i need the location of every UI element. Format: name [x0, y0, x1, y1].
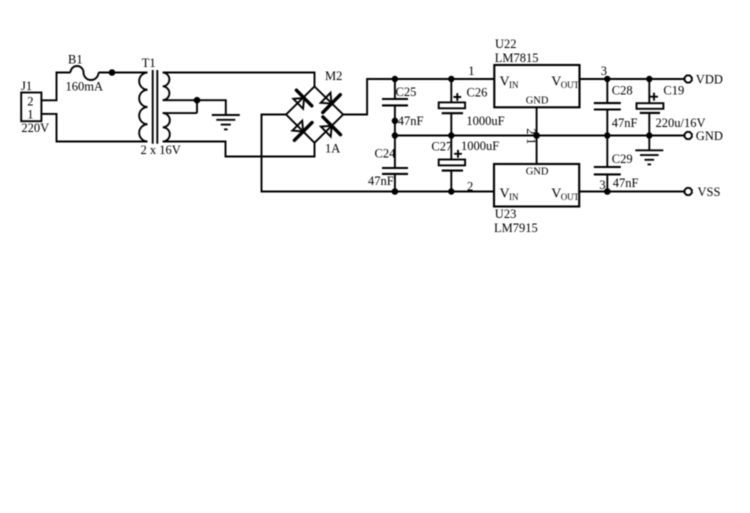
- diode D-lower-right: [321, 117, 341, 137]
- wire U22 gnd pin: [536, 107, 538, 135]
- capacitor C26 (polarized): [439, 79, 505, 136]
- bridge rectifier M2: [286, 69, 343, 155]
- svg-text:GND: GND: [526, 96, 549, 107]
- wire VDD rail: [580, 78, 684, 80]
- connector J1: [21, 79, 49, 135]
- junction C29 bottom: [604, 188, 611, 195]
- wire U23 gnd pin: [536, 136, 538, 165]
- gnd bus wire: [395, 135, 684, 137]
- terminal GND: [685, 129, 723, 143]
- wire center tap: [163, 100, 226, 115]
- svg-text:LM7915: LM7915: [494, 221, 538, 235]
- ground (output common): [635, 136, 663, 165]
- terminal VDD: [685, 73, 723, 87]
- transformer T1: [139, 56, 181, 157]
- wire fuse to transformer primary top: [99, 72, 148, 74]
- regulator U22 LM7815: [494, 37, 579, 107]
- wire bridge right corner to positive rail: [343, 79, 494, 115]
- junction after fuse: [109, 69, 116, 76]
- junction C19 top: [646, 76, 652, 82]
- junction center tap: [194, 97, 201, 104]
- svg-text:GND: GND: [696, 129, 723, 143]
- svg-text:1: 1: [468, 64, 474, 78]
- svg-text:C28: C28: [612, 83, 633, 97]
- capacitor C25: [382, 79, 424, 136]
- junction C25 mid: [392, 118, 398, 124]
- capacitor C28: [594, 79, 638, 136]
- svg-text:1000uF: 1000uF: [466, 114, 504, 128]
- svg-text:2 x 16V: 2 x 16V: [141, 143, 181, 157]
- junction C27 bottom: [448, 188, 454, 194]
- capacitor C19 (polarized): [637, 79, 706, 136]
- svg-text:C29: C29: [612, 152, 633, 166]
- svg-text:C27: C27: [431, 140, 452, 154]
- svg-text:3: 3: [601, 64, 607, 78]
- regulator U23 LM7915: [494, 164, 580, 235]
- svg-text:T1: T1: [142, 56, 156, 70]
- svg-text:1: 1: [27, 108, 33, 122]
- svg-text:C26: C26: [467, 85, 488, 99]
- diode D-upper-right: [321, 93, 341, 113]
- capacitor C24: [368, 136, 408, 192]
- svg-text:M2: M2: [325, 69, 342, 83]
- svg-text:160mA: 160mA: [66, 79, 104, 93]
- svg-text:1: 1: [524, 138, 538, 144]
- wire J1 pin2 to fuse: [41, 73, 70, 101]
- svg-text:U22: U22: [495, 37, 517, 51]
- svg-text:GND: GND: [526, 167, 549, 178]
- svg-text:2: 2: [27, 95, 33, 109]
- wire VSS rail: [579, 191, 684, 193]
- svg-text:C19: C19: [663, 83, 684, 97]
- svg-text:IN: IN: [509, 192, 519, 202]
- svg-text:1A: 1A: [325, 142, 340, 156]
- wire secondary bottom to bridge bottom: [163, 142, 315, 157]
- junction U22 gnd: [533, 132, 540, 139]
- svg-text:VSS: VSS: [698, 185, 721, 199]
- wire bridge left corner to negative rail: [262, 115, 495, 192]
- wire secondary top to bridge top: [163, 73, 315, 87]
- junction C26 bottom: [448, 132, 454, 138]
- svg-text:U23: U23: [495, 207, 517, 221]
- ground (transformer center tap): [212, 115, 240, 129]
- fuse B1: [66, 53, 104, 94]
- diode D-upper-left: [293, 90, 312, 109]
- svg-text:220V: 220V: [21, 121, 49, 135]
- svg-text:47nF: 47nF: [368, 174, 394, 188]
- svg-text:C24: C24: [375, 146, 397, 160]
- terminal VSS: [685, 185, 721, 199]
- junction C28 top: [604, 76, 610, 82]
- svg-text:IN: IN: [509, 80, 519, 90]
- svg-text:47nF: 47nF: [398, 114, 424, 128]
- junction C19 bottom: [646, 132, 652, 138]
- svg-text:OUT: OUT: [561, 192, 580, 202]
- svg-text:OUT: OUT: [561, 80, 580, 90]
- wire J1 pin1 to transformer primary bottom: [41, 114, 147, 142]
- svg-text:J1: J1: [21, 79, 32, 93]
- svg-text:2: 2: [467, 179, 473, 193]
- diode D-lower-left: [292, 121, 312, 141]
- svg-text:B1: B1: [68, 53, 83, 67]
- junction C24 bottom: [392, 188, 399, 195]
- svg-text:VDD: VDD: [696, 73, 723, 87]
- svg-text:47nF: 47nF: [613, 176, 639, 190]
- junction C28 bottom: [604, 132, 610, 138]
- junction C25 top: [392, 76, 398, 82]
- junction C26 top: [448, 76, 454, 82]
- svg-text:1000uF: 1000uF: [461, 139, 499, 153]
- svg-text:LM7815: LM7815: [495, 51, 539, 65]
- svg-text:47nF: 47nF: [612, 116, 638, 130]
- capacitor C27 (polarized): [431, 136, 499, 192]
- capacitor C29: [594, 136, 639, 192]
- svg-text:C25: C25: [396, 85, 417, 99]
- junction C25 bottom (gnd bus left end): [392, 132, 398, 138]
